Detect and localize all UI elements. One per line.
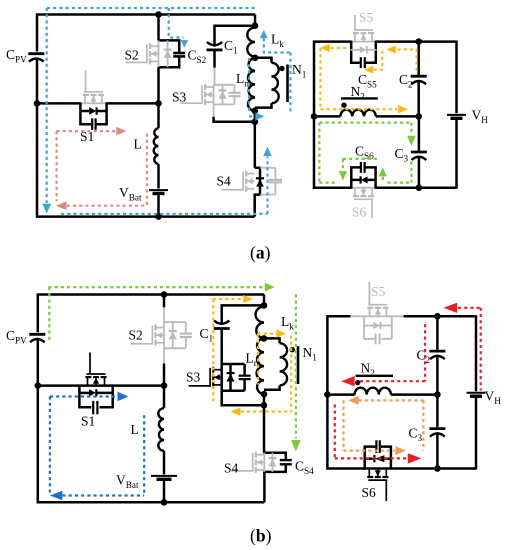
- wire segment blue left of L_m (a): [248, 58, 250, 113]
- wire: transformer to S4 (a): [254, 111, 257, 168]
- wire segment blue bottom dashed (a): [61, 213, 268, 215]
- wire: C3 branch upper (b): [436, 395, 439, 428]
- node: left rail / middle rail (b): [35, 382, 42, 389]
- wire segment yellow left dashed (b): [212, 299, 214, 404]
- svg-text:S6: S6: [362, 485, 377, 500]
- arrow red left at N2 (b): [341, 376, 355, 386]
- arrow blue left bottom (b): [50, 491, 63, 500]
- battery V_Bat (a): [149, 189, 168, 191]
- svg-text:C2: C2: [417, 348, 431, 365]
- svg-text:S4: S4: [217, 174, 232, 189]
- svg-text:CS5: CS5: [358, 72, 377, 89]
- wire: left vertical rail (a): [37, 15, 255, 52]
- wire segment orange left dashed (b): [342, 400, 344, 450]
- wire segment red top dashed (b): [458, 307, 482, 309]
- wire: C3 to bottom rail (a): [418, 158, 421, 188]
- arrow yellow right top (b): [243, 295, 253, 303]
- transistor S6 black MOSFET symbol conducting (b): [368, 469, 370, 478]
- current loop green: C_S6 charge path (a): [319, 123, 415, 183]
- svg-text:C2: C2: [399, 72, 413, 89]
- wire segment green bottom-right (a): [388, 182, 412, 184]
- diode: S3 body diode gray (a): [222, 85, 224, 105]
- battery V_Bat (b): [151, 475, 177, 477]
- wire segment blue into C_S2 (a): [169, 8, 184, 38]
- node: bottom rail / battery branch (b): [161, 499, 168, 506]
- wire segment yellow top-left (a): [330, 47, 346, 49]
- winding N_2 secondary coil (a): [340, 110, 375, 117]
- transistor S5 gray MOSFET symbol (a): [354, 33, 356, 42]
- wire segment red left vertical (b): [334, 405, 336, 459]
- capacitor: S1 snubber plates (b): [92, 401, 94, 414]
- wire segment yellow right of C2 down (a): [397, 50, 417, 71]
- switch S2 gray channel segment (a): [158, 40, 160, 67]
- node: N2 left (b): [324, 391, 331, 398]
- svg-text:C3: C3: [409, 426, 423, 443]
- diode: S6 body diode black conducting (b): [365, 457, 374, 460]
- wire: V_H branch upper (b): [475, 315, 478, 391]
- arrow salmon right (a): [116, 127, 126, 136]
- wire segment red C2 vertical (b): [424, 324, 426, 381]
- switch S6 snubber black path with capacitor C_S6 (a): [351, 167, 360, 188]
- svg-text:S5: S5: [371, 284, 386, 299]
- wire: transformer to S4 (b): [263, 394, 266, 453]
- svg-text:S3: S3: [172, 90, 187, 105]
- winding N_1 primary (a): [255, 58, 272, 63]
- wire segment blue top dashed (b): [50, 395, 117, 397]
- wire: top rail corner down to clamp node (a): [254, 15, 257, 26]
- wire: middle rail left of S1 (a): [37, 102, 80, 105]
- diode: S3 body diode black (b): [229, 364, 232, 391]
- arrow yellow left top-left (a): [320, 44, 330, 52]
- switch S6 snubber black path with capacitor (b): [365, 447, 376, 470]
- switch S5 gray snubber loop with capacitor (b): [363, 316, 365, 339]
- wire: S2 drain (b): [163, 294, 166, 308]
- figure (b) switch S4 with snubber C_S4: [224, 452, 314, 503]
- wire: S4 black diode path jog (a): [255, 168, 260, 217]
- svg-text:S1: S1: [81, 414, 95, 429]
- wire: L branch upper (a): [157, 103, 160, 128]
- winding N_1 primary (b): [264, 338, 280, 343]
- current loop red: output delivery path (b): [335, 303, 482, 464]
- arrow green down at C3 (a): [407, 136, 416, 146]
- diode: S5 body diode gray (a): [350, 49, 359, 51]
- inductor L_k leakage (a): [247, 28, 255, 57]
- capacitor C_3 (b): [429, 427, 445, 430]
- capacitor: S4 snubber gray (a): [260, 167, 275, 169]
- wire: middle rail (b): [38, 384, 164, 387]
- wire segment yellow inner horizontal (b): [258, 333, 277, 335]
- current loop salmon: S1 freewheeling path (a): [56, 127, 147, 210]
- wire segment blue right dashed (b): [143, 415, 145, 495]
- switch S2 snubber loop black path with capacitor C_S2 (a): [158, 40, 180, 52]
- svg-text:Lk: Lk: [271, 32, 284, 49]
- wire segment blue top dashed (a): [47, 7, 257, 9]
- switch S2 gray body diode (a): [167, 40, 169, 67]
- wire segment salmon left dashed (a): [55, 131, 57, 201]
- arrow yellow left bottom (b): [230, 407, 240, 415]
- wire: clamp node to C1 (a): [215, 26, 256, 47]
- transistor S4 gray MOSFET symbol (a): [246, 173, 255, 175]
- wire: battery to bottom rail (a): [157, 192, 160, 217]
- wire: battery to bottom rail (b): [163, 478, 166, 502]
- wire: V_H branch upper (a): [455, 41, 458, 114]
- transistor S1 gray MOSFET symbol above wire (a): [80, 102, 106, 104]
- wire: secondary top rail (b): [327, 316, 364, 468]
- node: middle rail / L branch (b): [161, 382, 168, 389]
- current loop yellow: clamp resonance path (b): [213, 295, 291, 416]
- wire: C1 to S3 (a): [213, 51, 216, 68]
- svg-text:C1: C1: [224, 38, 238, 55]
- capacitor: S3 output capacitance gray (a): [233, 85, 235, 93]
- wire segment blue left dashed (b): [49, 397, 51, 496]
- diode: S5 body diode gray (b): [364, 325, 373, 327]
- node: N2 left (a): [311, 113, 318, 120]
- inductor L (b): [158, 408, 164, 451]
- svg-text:VBat: VBat: [119, 185, 142, 202]
- svg-text:S6: S6: [352, 205, 367, 220]
- capacitor: S1 snubber plates (a): [91, 118, 93, 129]
- figure (a) switch S4: [217, 168, 283, 217]
- wire: C1 to S3 (b): [220, 329, 223, 364]
- node: N2 right (b): [434, 391, 441, 398]
- node: clamp top junction (a): [252, 22, 259, 29]
- wire segment salmon top dashed (a): [56, 130, 116, 132]
- inductor L_m magnetizing (b): [257, 338, 264, 394]
- svg-text:S2: S2: [129, 328, 143, 343]
- arrow salmon left (a): [56, 201, 67, 210]
- capacitor C_1 (a): [207, 42, 222, 45]
- node: N2 right (a): [415, 113, 422, 120]
- wire segment green left dashed (a): [318, 123, 320, 183]
- svg-text:CPV: CPV: [6, 47, 27, 64]
- arrow yellow right above N2 (a): [398, 105, 408, 113]
- wire: left rail below C_PV (b): [38, 340, 265, 503]
- svg-text:CPV: CPV: [6, 328, 27, 345]
- wire: clamp node to C1 (b): [222, 305, 264, 324]
- wire segment blue bottom dashed (b): [63, 494, 145, 496]
- capacitor C_2 (a): [411, 75, 427, 78]
- current loop yellow: C_S5 discharge path (a): [320, 44, 417, 114]
- wire segment salmon bottom dashed (a): [67, 205, 147, 207]
- node: top rail / S2 branch (a): [155, 11, 162, 18]
- winding N_2 wire left (a): [314, 115, 340, 118]
- capacitor C_2 (b): [429, 350, 445, 353]
- arrow orange left top (b): [348, 396, 359, 405]
- transformer core line (b): [297, 346, 300, 384]
- transistor S1 black MOSFET symbol conducting (b): [87, 377, 89, 386]
- figure (a) secondary side circuit: [311, 10, 489, 220]
- arrow blue right at transformer bottom (a): [255, 112, 264, 120]
- wire: secondary top rail (a): [314, 42, 351, 188]
- diode: S1 body diode (b): [79, 392, 89, 395]
- wire: S3 source elbow to transformer (b): [222, 391, 264, 406]
- switch S5 snubber black path with capacitor C_S5 (a): [351, 41, 360, 63]
- wire: S4 to bottom rail (b): [263, 472, 266, 502]
- transistor S5 gray MOSFET symbol (b): [368, 308, 370, 317]
- node: top rail / C2 (a): [415, 38, 422, 45]
- svg-text:S4: S4: [224, 461, 239, 476]
- capacitor: S3 capacitance black (b): [243, 364, 246, 376]
- wire: S2 source to middle rail (b): [163, 348, 165, 363]
- wire segment yellow right vertical (b): [290, 336, 292, 412]
- wire: S3 source elbow to transformer (a): [213, 104, 215, 116]
- battery V_H (b): [467, 392, 486, 394]
- wire: S2 source to middle rail (a): [157, 67, 160, 103]
- wire: left rail below C_PV (a): [37, 59, 255, 216]
- node: transformer top (b): [261, 335, 268, 342]
- wire segment orange top dashed (b): [359, 399, 424, 401]
- svg-text:Lk: Lk: [281, 314, 294, 331]
- current loop blue: S1 conduction path (b): [50, 392, 144, 500]
- polarity dot N_1 (b): [290, 347, 295, 352]
- figure (a) clamp branch C1/S3 and transformer: [172, 15, 307, 168]
- wire segment orange right dashed (b): [422, 400, 424, 450]
- wire: C2 to N2 node (b): [436, 357, 439, 395]
- polarity dot N_2 (a): [341, 103, 346, 108]
- wire: S4 black snubber path with capacitor C_S4 (b): [263, 453, 286, 460]
- figure (b) secondary side circuit: [324, 282, 501, 501]
- figure (b) left converter circuit: [6, 291, 264, 505]
- diode: S6 body diode conducting black (a): [351, 179, 360, 182]
- winding N_2 secondary coil (b): [355, 388, 391, 395]
- figure (a) left converter circuit: [6, 11, 255, 220]
- polarity dot N_2 (b): [355, 380, 360, 385]
- svg-text:S5: S5: [359, 10, 374, 25]
- inductor L_m magnetizing (a): [248, 58, 255, 111]
- node: bottom rail / battery branch (a): [155, 213, 162, 220]
- wire: V_H branch lower (b): [475, 395, 478, 470]
- arrow blue up at S4 (a): [263, 147, 272, 157]
- node: C3 bottom (a): [416, 184, 423, 191]
- arrow green down at S4 (b): [291, 440, 301, 452]
- node: C3 bottom (b): [434, 465, 441, 472]
- arrow red left top (b): [444, 303, 458, 313]
- transformer core line (a): [286, 65, 289, 103]
- wire segment red to N2 dashed (b): [356, 380, 425, 382]
- svg-text:N1: N1: [292, 62, 307, 79]
- svg-text:VH: VH: [485, 389, 502, 406]
- svg-text:L: L: [131, 422, 139, 437]
- node: top rail / S2 branch (b): [161, 291, 168, 298]
- svg-text:N1: N1: [303, 345, 318, 362]
- svg-text:VBat: VBat: [116, 473, 139, 490]
- inductor L_k leakage (b): [256, 307, 264, 339]
- svg-text:C3: C3: [395, 146, 409, 163]
- transistor S2 gray MOSFET symbol (a): [150, 45, 159, 47]
- wire segment yellow into C_S5 (a): [374, 51, 383, 70]
- node: S3 source junction (a): [252, 119, 259, 126]
- diode: S4 body diode gray (b): [271, 453, 273, 472]
- wire: L to battery (a): [157, 164, 160, 189]
- arrow blue right through S1 (b): [118, 392, 129, 401]
- capacitor C_PV (b): [29, 333, 45, 336]
- wire segment green top dashed (b): [48, 286, 264, 288]
- transistor S3 gray MOSFET with body diode and capacitor (a): [214, 84, 235, 86]
- wire segment blue left dashed (a): [46, 8, 48, 203]
- svg-text:S2: S2: [125, 48, 139, 63]
- wire: C3 to bottom rail (b): [436, 434, 439, 468]
- node: transformer bottom (b): [261, 391, 268, 398]
- current loop orange: S6 loop path (b): [344, 396, 424, 455]
- wire segment red bottom through S6 (b): [335, 457, 407, 459]
- polarity dot N_1 (a): [279, 66, 284, 71]
- current loop green: PV to clamp path (b): [48, 283, 300, 452]
- wire: C2 to N2 node (a): [417, 82, 420, 117]
- node: clamp top junction (b): [261, 302, 268, 309]
- transistor S6 gray MOSFET symbol (a): [354, 188, 356, 197]
- wire segment blue from L_k around N1 right (a): [264, 38, 291, 52]
- battery V_H (a): [447, 114, 466, 116]
- wire segment salmon right dashed (a): [146, 134, 148, 206]
- node: middle rail / L branch (a): [155, 100, 162, 107]
- node: left rail / middle rail (a): [34, 100, 41, 107]
- switch S4 gray channel segment (b): [263, 453, 265, 472]
- svg-text:(a): (a): [250, 243, 271, 263]
- wire: left vertical rail (b): [38, 295, 264, 333]
- diode: S2 body diode gray (b): [172, 322, 174, 348]
- wire segment green left dashed (b): [48, 287, 50, 343]
- wire segment green top dashed (a): [319, 121, 411, 123]
- arrow green up right of C_S6 (a): [379, 167, 387, 176]
- node: transformer bottom (a): [252, 108, 259, 115]
- arrow yellow right inner (b): [277, 329, 287, 337]
- transistor S3 black MOSFET with body diode and capacitor conducting (b): [222, 363, 245, 366]
- diode: S4 body diode conducting black (a): [256, 177, 264, 179]
- arrow blue down bottom-left (a): [42, 204, 51, 214]
- wire: C2 branch upper (b): [436, 316, 439, 349]
- svg-text:S3: S3: [186, 370, 201, 385]
- figure (b) clamp branch C1/S3 and transformer: [186, 295, 317, 453]
- capacitor: S2 output capacitance gray (b): [185, 322, 187, 333]
- wire: L branch upper (b): [163, 386, 166, 409]
- transistor S4 gray MOSFET symbol (b): [256, 454, 264, 456]
- svg-text:VH: VH: [472, 108, 489, 125]
- arrow red right bottom (b): [408, 453, 422, 463]
- wire segment yellow inner left vertical (b): [257, 334, 259, 385]
- switch S1 body-diode loop black path (b): [79, 385, 91, 408]
- wire: N2 to C2 node (a): [376, 115, 419, 118]
- wire segment green bottom-left (a): [319, 182, 336, 184]
- wire: top rail corner down (b): [263, 295, 266, 306]
- wire: N2 to C2 node (b): [391, 393, 438, 396]
- arrow yellow left upper right (a): [386, 45, 396, 53]
- svg-text:CS4: CS4: [295, 459, 314, 476]
- wire segment blue S4 vertical dashed (a): [266, 157, 268, 214]
- node: top rail / C2 (b): [434, 313, 441, 320]
- winding N_2 wire left (b): [327, 393, 354, 396]
- arrow blue down into C_S2 (a): [181, 40, 189, 48]
- arrow green down left of C_S6 (a): [342, 159, 344, 171]
- current loop blue: PV input path (a): [42, 8, 290, 214]
- arrow yellow left into C_S5 (a): [364, 66, 373, 74]
- wire: V_H branch lower (a): [455, 117, 458, 189]
- wire: S2 drain from top rail (a): [157, 14, 160, 41]
- node: transformer top (a): [252, 55, 259, 62]
- wire: L to battery (b): [163, 451, 166, 475]
- switch S1 body-diode loop black path (a): [80, 102, 91, 124]
- transistor S2 gray MOSFET with body diode and capacitor (b): [164, 321, 186, 323]
- wire segment red right vertical at VH (b): [480, 308, 482, 391]
- wire segment yellow bottom dashed (b): [241, 411, 292, 413]
- wire segment green over C_S6 (a): [343, 158, 377, 160]
- wire segment orange bottom dashed (b): [344, 450, 395, 452]
- svg-text:CS2: CS2: [188, 48, 207, 65]
- node: S3 source junction (b): [261, 402, 268, 409]
- wire segment yellow left vertical (a): [319, 48, 321, 109]
- svg-text:(b): (b): [250, 526, 272, 546]
- inductor L (a): [154, 128, 159, 164]
- wire segment green right lower (a): [410, 162, 412, 183]
- svg-text:L: L: [134, 137, 142, 152]
- capacitor C_1 (b): [214, 321, 229, 324]
- wire: C3 branch upper (a): [418, 116, 421, 150]
- svg-text:C1: C1: [200, 326, 214, 343]
- arrow blue up at L_k (a): [260, 30, 268, 39]
- wire segment yellow bottom above N2 (a): [321, 108, 398, 110]
- wire segment green right upper (a): [410, 123, 412, 135]
- arrow green right top (b): [265, 283, 275, 292]
- wire segment green right vertical (b): [295, 294, 297, 438]
- wire: middle rail right of S1 (a): [107, 102, 159, 105]
- wire segment yellow top dashed (b): [213, 298, 243, 300]
- arrow orange right bottom (b): [395, 446, 406, 455]
- capacitor C_3 (a): [411, 151, 427, 154]
- diode: S1 body diode conducting (a): [80, 110, 89, 113]
- wire: C2 branch upper (a): [417, 42, 420, 75]
- capacitor C_PV (a): [28, 52, 44, 55]
